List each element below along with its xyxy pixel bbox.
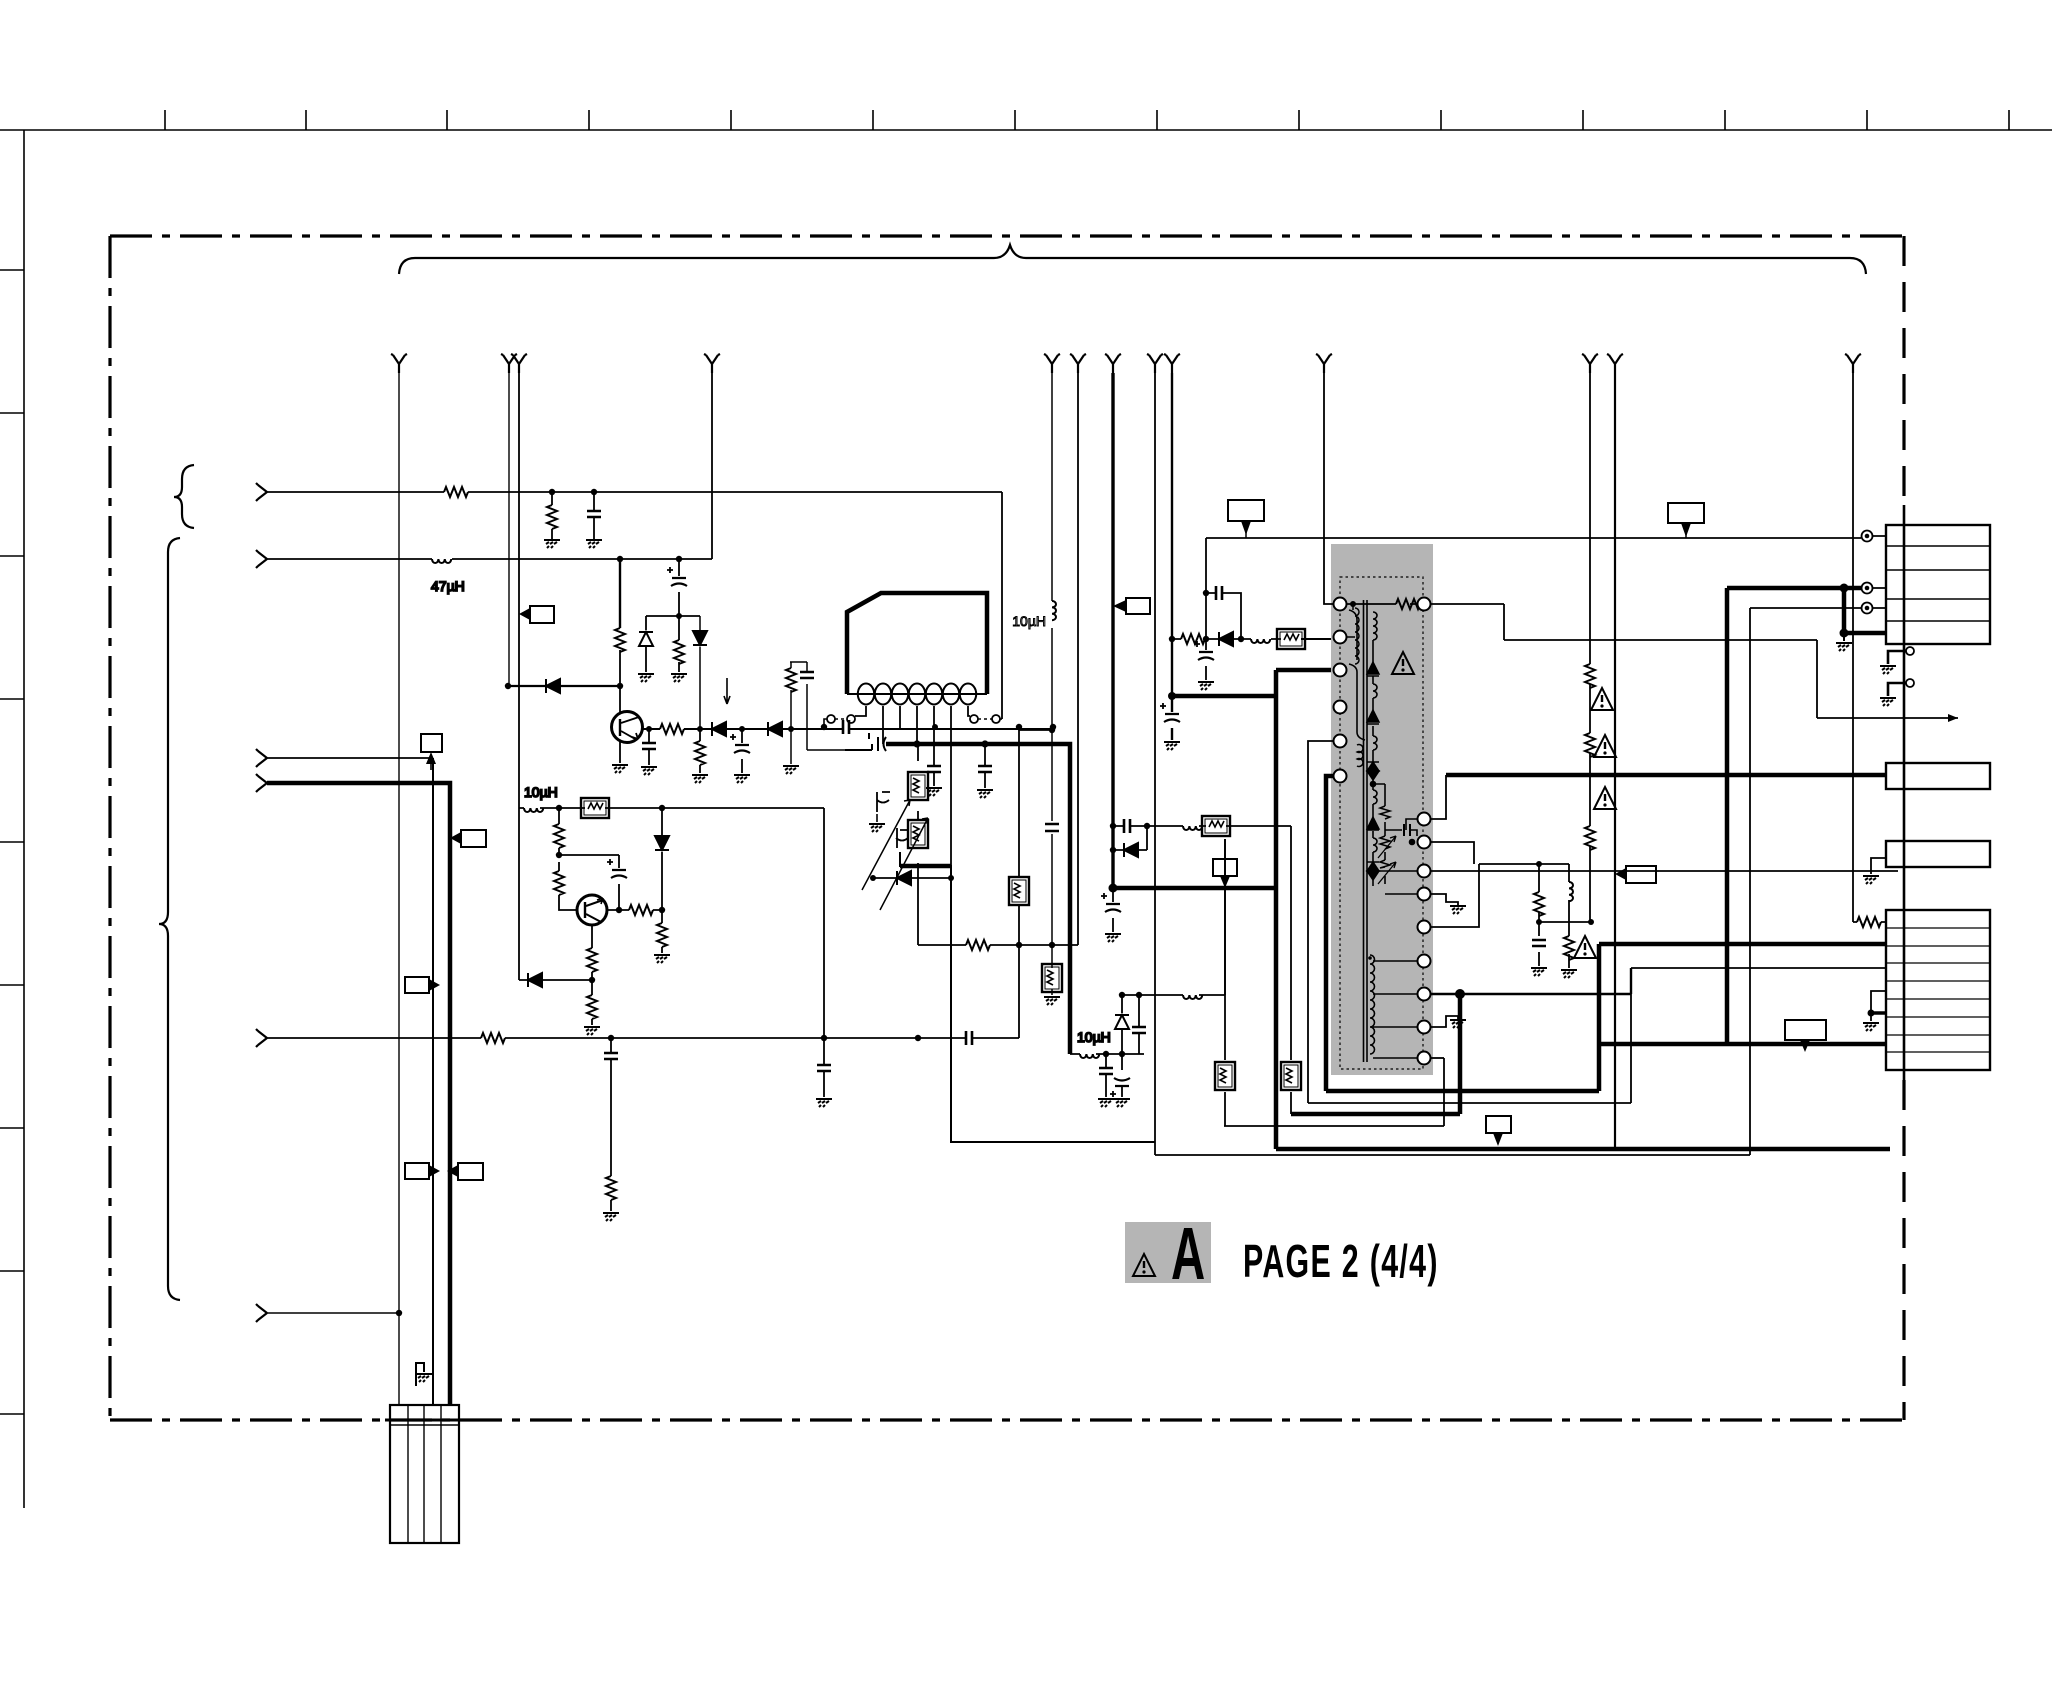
capacitor to ground (593, 492, 595, 540)
wire y995 (1122, 839, 1225, 995)
caps to gnd below (1105, 1054, 1107, 1097)
x519 drop to diode (518, 373, 520, 980)
x559 chain: res, dot, res (559, 808, 577, 910)
x1019 (1018, 727, 1020, 1038)
taps to right pins (1347, 610, 1418, 1058)
internal top wire y604 with resistor (1347, 603, 1418, 605)
block CN3 (1886, 841, 1990, 867)
riser x1224 with boxres (1224, 839, 1226, 1126)
callout left box on x1113 (1126, 598, 1150, 614)
wire vertical x399 (398, 373, 400, 1405)
pin leads (855, 706, 970, 866)
ground hook left of bar (416, 1363, 424, 1386)
node dots (549, 489, 555, 495)
x824 from y808 (823, 808, 825, 1038)
arrow annotation (724, 678, 730, 704)
transistor Q1 (612, 712, 643, 743)
thick bus y888 (1113, 886, 1276, 891)
row6 (1155, 608, 1861, 1155)
block CN2 (1886, 763, 1990, 789)
cap to gnd under node 649 (648, 729, 650, 765)
transformer core double line (1364, 600, 1368, 1062)
rail y616 (646, 615, 700, 617)
pin 1058 route (1430, 1057, 1444, 1059)
connector CN bottom block (390, 1405, 459, 1543)
block CN4 (1886, 910, 1990, 1070)
callout left-arrow box at y838 (461, 830, 486, 847)
RCA circles with ground (1906, 647, 1914, 655)
pin 1027 ground hook (1430, 1016, 1458, 1027)
warning triangle in grey (1392, 652, 1414, 674)
svg-text:A: A (1171, 1213, 1205, 1295)
callout on y538 at x1686 (1668, 503, 1704, 523)
diode up branch (1121, 995, 1123, 1054)
collector chain (607, 909, 662, 911)
border top (110, 234, 1904, 237)
svg-text:10µH: 10µH (1077, 1029, 1111, 1045)
pin6 route thick (1326, 776, 1334, 1091)
pin 819 to thick bus y775 (1430, 775, 1446, 819)
cap chain y593 (1203, 590, 1209, 596)
block CN1 (1886, 525, 1990, 644)
pol cap to gnd under node 742 (741, 729, 743, 773)
wire y783 thick (267, 783, 450, 1405)
resistor R on wire1 (444, 487, 468, 497)
dashed terminals right (970, 715, 978, 723)
resistor into block4 (1853, 921, 1886, 923)
row3 thick (1291, 994, 1460, 1114)
x509 (508, 373, 510, 686)
pin 961 tap only / pin 994 junction (1430, 968, 1631, 994)
row1 thick (1326, 944, 1886, 1091)
pin 842 wire right (1430, 842, 1474, 864)
top ruler line (0, 129, 2052, 131)
windings left upper (1355, 608, 1363, 767)
small brace (174, 465, 194, 528)
pin 927 to subcircuit (1430, 864, 1591, 968)
dashed terminals left (847, 715, 855, 723)
wire y492 (267, 492, 1002, 719)
boxres chain on x918 (917, 744, 919, 945)
border bottom (110, 1418, 1904, 1421)
diode down right branch (699, 616, 701, 729)
riser x1291 with boxres (1290, 826, 1292, 1114)
x1155 (1154, 373, 1156, 1155)
winding chain right of core (1373, 612, 1377, 886)
chain y639: res diode ind box (1169, 636, 1175, 642)
wire y945 (918, 944, 1078, 946)
wire y1054 (1070, 1053, 1144, 1055)
x1113 thick (1111, 373, 1114, 888)
node dots (617, 556, 623, 562)
10uH inductor wire y808 (519, 807, 585, 809)
callout left-arrow box at y1171 (458, 1163, 483, 1180)
row5 thick (1276, 1147, 1890, 1152)
vertical x1853 wire (1852, 373, 1854, 922)
big brace (159, 538, 180, 1300)
diode branch y850 (1110, 847, 1116, 853)
thick loop x1727 (1599, 588, 1886, 1044)
lower big winding (1370, 955, 1375, 1054)
wire y758 (267, 757, 433, 759)
svg-text:PAGE 2 (4/4): PAGE 2 (4/4) (1243, 1237, 1439, 1288)
bullseyes (1862, 531, 1873, 542)
pin1 left from x1324 (1324, 373, 1334, 604)
thick bus wire (886, 744, 1070, 1054)
svg-text:10µH: 10µH (524, 784, 558, 800)
boxres on y808 (581, 798, 609, 818)
pin1 right wire y604 staircase to arrow (1430, 604, 1958, 718)
diode up left branch (645, 616, 647, 672)
callout above y888 (1213, 859, 1237, 876)
left ruler line (23, 130, 25, 1508)
wire y538 with corner at x1206 (1206, 537, 1861, 539)
wire y855 to pol cap (559, 855, 619, 910)
resistor to ground (551, 492, 553, 540)
row4 (1224, 1058, 1444, 1126)
thick L y696 (1172, 670, 1334, 696)
pol cap at 1207 under 639 (1205, 639, 1207, 680)
branch at 824: cap, gnd (823, 1038, 825, 1097)
emitter ground (619, 742, 621, 763)
wire y1313 (267, 1312, 399, 1314)
row2 (1308, 968, 1886, 1103)
right pins (1418, 598, 1431, 1065)
callout left box on x519 at y614 (530, 606, 554, 623)
diode into emitter node (519, 979, 592, 981)
x1078 (1077, 373, 1079, 945)
cap to gnd at x934 (933, 765, 935, 786)
callout on y1044 (1785, 1020, 1826, 1040)
capacitor pol from wire2 (678, 559, 680, 619)
resistor on x620 (615, 628, 625, 652)
inductor 47uH (432, 559, 451, 563)
callout right-arrow box at y985 (405, 977, 429, 993)
svg-text:10µH: 10µH (1012, 613, 1046, 629)
left ruler ticks (0, 270, 24, 1414)
pol cap under x1113 (1112, 888, 1114, 932)
callout left box on x1615 (1626, 866, 1656, 883)
thick y582 to bullseye (1727, 586, 1861, 591)
diode wire y686 (508, 685, 620, 687)
wire y559 (267, 373, 712, 559)
cap to gnd at x985 (984, 744, 986, 788)
left pins (1334, 598, 1347, 783)
x662 branch: diode down from y808, res+gnd below (661, 808, 663, 953)
svg-text:47µH: 47µH (431, 578, 465, 594)
wire vertical x433 (432, 770, 434, 1405)
collector bus y729 (642, 728, 1053, 730)
trimmer caps + diag arrows (877, 792, 890, 812)
x1172 + pol cap gnd (1171, 373, 1173, 740)
x1904 solid wire portion (1903, 505, 1906, 1080)
pol cap series at start (845, 733, 886, 751)
resistor mid branch (678, 616, 680, 672)
transistor Q2 (577, 895, 607, 925)
cap branch (1138, 995, 1140, 1054)
callout box on bar top (421, 734, 442, 752)
bus y727 cap + dots (821, 724, 827, 730)
bus y730 from 1019 (1019, 729, 1052, 731)
callout on y538 at x1246 (1228, 500, 1264, 521)
pin5 route (1308, 741, 1334, 1103)
vertical from wire2 x620 (619, 559, 621, 628)
border right dashed (1902, 236, 1905, 505)
branch at 611: cap, res, gnd (610, 1038, 612, 1211)
emitter chain (591, 925, 593, 1025)
x1052 line (1051, 373, 1053, 995)
thick riser x1276 (1274, 696, 1279, 1149)
res to gnd under node 700 (699, 729, 701, 773)
junction dot wire y1313 (396, 1310, 402, 1316)
pin 894 ground hook (1430, 894, 1458, 906)
callout right-arrow box at y1171 (405, 1163, 429, 1179)
thick y866 + diode row (900, 852, 1155, 1142)
top ruler ticks (165, 110, 2009, 130)
callout on row5 (1486, 1116, 1511, 1133)
pin 871 wire right (1430, 870, 1898, 872)
border left (108, 236, 111, 1420)
